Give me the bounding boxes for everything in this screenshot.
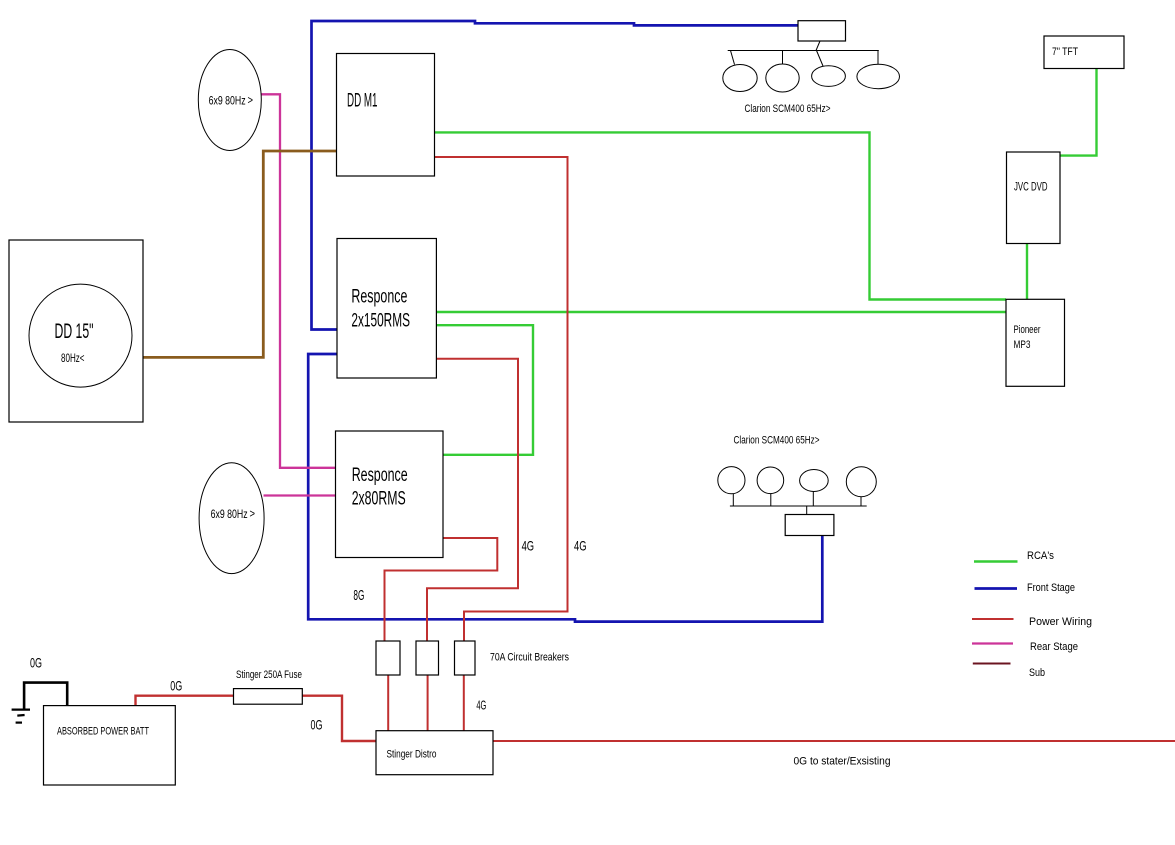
head unit JVC DVD box [1007, 152, 1061, 244]
svg-text:70A Circuit Breakers: 70A Circuit Breakers [490, 652, 569, 664]
label 0G near ground [30, 655, 42, 671]
wire black battery ground lead [24, 683, 67, 709]
Clarion top speaker 1 [723, 65, 757, 92]
label ABSORBED POWER BATT [57, 726, 149, 738]
wire brown sub DD 15 to DD M1 [143, 151, 337, 357]
wire red breaker1 to Stinger Distro [387, 675, 389, 731]
label 0G fuse to distro [311, 717, 323, 733]
circuit breaker 1 box [376, 641, 400, 675]
label Stinger Distro [387, 749, 437, 761]
wire magenta rear-stage 6x9 top ellipse to Responce 2x80RMS [262, 94, 337, 468]
svg-text:Responce: Responce [352, 464, 408, 486]
wire green RCA 7inch TFT to JVC DVD [1060, 68, 1097, 155]
Clarion bottom speaker 4 [846, 467, 876, 497]
subwoofer DD 15 box [9, 240, 143, 422]
svg-text:0G to stater/Exsisting: 0G to stater/Exsisting [794, 755, 891, 767]
svg-text:Sub: Sub [1029, 667, 1045, 679]
Clarion top speaker 4 [857, 64, 900, 88]
legend RCA's swatch [974, 560, 1018, 562]
Stinger 250A fuse box [234, 689, 303, 705]
circuit breaker 2 box [416, 641, 439, 675]
Clarion bottom speaker 1 [718, 467, 745, 494]
label 7" TFT [1052, 46, 1078, 58]
svg-text:ABSORBED POWER BATT: ABSORBED POWER BATT [57, 726, 149, 738]
speaker 6x9 top ellipse [198, 50, 261, 151]
label DD 15" [55, 319, 94, 343]
wire green RCA Responce 2x150RMS to Pioneer MP3 [436, 311, 1006, 313]
Clarion top connector rectangle [798, 21, 846, 41]
svg-text:Rear Stage: Rear Stage [1030, 641, 1078, 653]
amplifier Responce 2x80RMS box [336, 431, 444, 558]
legend Rear Stage swatch [972, 642, 1013, 644]
circuit breaker 3 box [455, 641, 476, 675]
wire blue front-stage from amp DD M1 area to Clarion connector (top) [312, 21, 799, 330]
wire red power 8G Responce 2x80RMS to circuit breaker 1 [385, 538, 498, 641]
Clarion bottom speaker 2 [757, 467, 784, 494]
svg-text:Stinger 250A Fuse: Stinger 250A Fuse [236, 669, 302, 681]
svg-text:Clarion SCM400 65Hz>: Clarion SCM400 65Hz> [734, 435, 820, 447]
ground symbol [12, 710, 30, 723]
label 80Hz< [61, 351, 85, 365]
Clarion top speaker 3 [812, 66, 846, 87]
label 0G battery to fuse [170, 678, 182, 694]
svg-text:6x9 80Hz: 6x9 80Hz [211, 507, 248, 521]
svg-text:6x9 80Hz: 6x9 80Hz [209, 94, 246, 108]
battery ABSORBED POWER BATT box [44, 706, 176, 785]
amplifier Responce 2x150RMS box [337, 239, 436, 379]
Clarion bottom harness bus [730, 492, 867, 515]
label JVC DVD [1014, 180, 1048, 194]
svg-text:DD 15": DD 15" [55, 319, 94, 343]
speaker 6x9 bottom ellipse [199, 463, 264, 574]
wire red 0G Stinger Distro to starter/existing [493, 740, 1175, 742]
wire magenta rear-stage 6x9 bottom ellipse to Responce 2x80RMS [264, 494, 337, 496]
legend label Sub [1029, 667, 1045, 679]
label DD M1 [347, 90, 378, 112]
label 4G right [574, 538, 587, 554]
legend label Front Stage [1027, 582, 1075, 594]
label Clarion SCM400 65Hz> top [745, 103, 831, 115]
svg-text:80Hz<: 80Hz< [61, 351, 85, 365]
Clarion top speaker 2 [766, 64, 799, 92]
label Pioneer MP3 [1014, 324, 1041, 351]
Stinger Distro box [376, 731, 493, 775]
svg-text:DD M1: DD M1 [347, 90, 378, 112]
legend label RCA's [1027, 550, 1054, 562]
svg-text:7" TFT: 7" TFT [1052, 46, 1078, 58]
legend Front Stage swatch [975, 587, 1018, 590]
svg-text:JVC DVD: JVC DVD [1014, 180, 1048, 194]
label 8G [353, 587, 364, 604]
wire red 0G fuse to Stinger Distro [302, 696, 376, 741]
label 70A Circuit Breakers [490, 652, 569, 664]
label 0G to stater/Exsisting [794, 755, 891, 767]
wire red power 4G DD M1 to circuit breaker 3 [435, 157, 568, 641]
wire blue front-stage from amp Responce 2x150RMS to lower Clarion connector [308, 354, 822, 622]
head unit Pioneer MP3 box [1006, 299, 1065, 386]
svg-text:0G: 0G [30, 655, 42, 671]
Clarion top harness bus [728, 41, 879, 66]
label Stinger 250A Fuse [236, 669, 302, 681]
Clarion bottom speaker 3 [800, 470, 829, 492]
svg-text:Pioneer: Pioneer [1014, 324, 1041, 336]
wire green RCA DD M1 to Pioneer MP3 [435, 132, 1007, 299]
subwoofer DD 15 cone circle [29, 284, 132, 387]
label 6x9 80Hz> top [209, 93, 253, 108]
svg-text:2x80RMS: 2x80RMS [352, 488, 406, 510]
wire red breaker3 to Stinger Distro [463, 675, 465, 731]
legend label Rear Stage [1030, 641, 1078, 653]
label Responce 2x150RMS [351, 285, 410, 331]
svg-text:4G: 4G [574, 538, 587, 554]
svg-text:>: > [250, 507, 256, 521]
wire red power 4G Responce 2x150RMS to circuit breaker 2 [427, 359, 518, 641]
label 4G left [522, 538, 535, 554]
svg-text:0G: 0G [311, 717, 323, 733]
svg-text:Power Wiring: Power Wiring [1029, 616, 1092, 628]
svg-text:Front Stage: Front Stage [1027, 582, 1075, 594]
Clarion bottom connector rectangle [785, 515, 834, 536]
svg-text:4G: 4G [476, 698, 486, 712]
label 6x9 80Hz> bottom [211, 507, 255, 522]
wire green RCA between Responce 2x150RMS and Responce 2x80RMS [436, 325, 533, 455]
svg-text:Clarion SCM400 65Hz>: Clarion SCM400 65Hz> [745, 103, 831, 115]
svg-text:RCA's: RCA's [1027, 550, 1054, 562]
svg-text:Responce: Responce [351, 285, 407, 307]
label Responce 2x80RMS [352, 464, 408, 510]
svg-text:MP3: MP3 [1014, 339, 1031, 351]
svg-text:>: > [248, 93, 254, 107]
label Clarion SCM400 65Hz> bottom [734, 435, 820, 447]
legend Power Wiring swatch [972, 618, 1014, 620]
amplifier DD M1 box [337, 54, 435, 177]
svg-text:Stinger Distro: Stinger Distro [387, 749, 437, 761]
label 4G distro [476, 698, 486, 712]
svg-text:4G: 4G [522, 538, 535, 554]
svg-text:8G: 8G [353, 587, 364, 604]
wire green RCA JVC DVD to Pioneer MP3 [1026, 244, 1028, 300]
wire red 0G battery to Stinger 250A fuse [136, 696, 234, 706]
wire red breaker2 to Stinger Distro [427, 675, 429, 731]
legend Sub swatch [973, 663, 1011, 665]
legend label Power Wiring [1029, 616, 1092, 628]
head unit 7inch TFT box [1044, 36, 1124, 69]
svg-text:0G: 0G [170, 678, 182, 694]
svg-text:2x150RMS: 2x150RMS [351, 310, 410, 332]
